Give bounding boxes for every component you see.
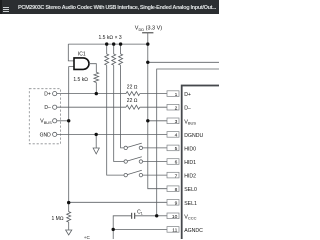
svg-text:IC1: IC1: [78, 51, 86, 57]
wire: C1 right plate to VCCC node: [135, 215, 157, 217]
node: VBUS / gate input junction: [67, 119, 70, 122]
svg-text:3: 3: [175, 119, 178, 125]
U1 pin 3 (VBUS): [167, 118, 179, 125]
resistor R6 22 Ohm (D- series): [126, 105, 140, 109]
node: rail / R3 junction: [119, 42, 122, 45]
svg-text:22 Ω: 22 Ω: [127, 85, 138, 91]
node: VDD branch to IC: [146, 61, 149, 64]
svg-text:VBUS: VBUS: [40, 119, 52, 125]
op-amp gate IC1: [74, 58, 89, 70]
wire: C1 left plate jog down to AGNDC net: [113, 216, 132, 230]
U1 pin 2 (D-): [167, 104, 179, 111]
U1 pin 5 (HID0): [167, 145, 179, 152]
wire: pull-up rail from gate input corner to VDD vertical: [68, 43, 148, 45]
node: SEL1 / 1 MOhm junction: [67, 201, 70, 204]
switch SW1 (HID0): [124, 143, 143, 150]
svg-text:HID1: HID1: [184, 160, 196, 166]
wire: rail down to IC1 upper input: [68, 44, 74, 61]
wire: right-edge wire turning down to VCCC node: [157, 69, 220, 216]
svg-text:D+: D+: [184, 92, 191, 98]
wire: stub down to capacitor C2 (cut off): [112, 229, 114, 239]
wire: VDD vertical from rail down to SEL0 pin 8: [148, 44, 167, 189]
J1 pin VBUS: [53, 119, 57, 123]
J1 pin D-: [53, 105, 57, 109]
wire: VBUS net from connector to gate-input vertical: [57, 120, 69, 122]
svg-text:9: 9: [175, 201, 178, 207]
wire: VDD branch to IC top right: [148, 61, 220, 63]
resistor R3 1.5 kOhm (pull-up to HID0 switch): [119, 44, 123, 65]
resistor R5 22 Ohm (D+ series): [126, 92, 140, 96]
U1 pin 6 (HID1): [167, 159, 179, 166]
svg-text:5: 5: [175, 146, 178, 152]
svg-text:6: 6: [175, 160, 178, 166]
resistor R7 1 MOhm (SEL1 pull-down): [67, 203, 71, 222]
svg-text:4: 4: [175, 133, 178, 139]
svg-text:1.5 kΩ: 1.5 kΩ: [73, 77, 88, 83]
wire: VCCC node to U1 pin 10: [157, 215, 167, 217]
svg-text:1: 1: [175, 92, 178, 98]
node: D+ / R4 junction: [95, 92, 98, 95]
svg-text:DGNDU: DGNDU: [184, 133, 203, 139]
svg-text:1.5 kΩ × 3: 1.5 kΩ × 3: [99, 35, 122, 41]
svg-text:D–: D–: [44, 105, 51, 111]
wire: AGNDC net to U1 pin 11: [113, 228, 167, 230]
wire: GND net from connector to U1 pin 4 DGNDU: [57, 133, 167, 135]
svg-text:D–: D–: [184, 106, 191, 112]
svg-text:1 MΩ: 1 MΩ: [52, 216, 64, 222]
svg-text:HID0: HID0: [184, 146, 196, 152]
svg-text:22 Ω: 22 Ω: [127, 98, 138, 104]
wire: D- net from connector to 22 Ohm resistor: [57, 106, 126, 108]
switch SW2 (HID1): [124, 157, 143, 163]
U1 pin 8 (SEL0): [167, 186, 179, 193]
resistor R2 1.5 kOhm (pull-up to HID1 switch): [112, 44, 116, 65]
svg-text:AGNDC: AGNDC: [184, 228, 203, 234]
node: VCCC / C1 junction: [155, 214, 158, 217]
node: AGNDC / C1 / C2 junction: [112, 228, 115, 231]
svg-text:VCCC: VCCC: [184, 214, 196, 220]
resistor R1 1.5 kOhm (pull-up to HID2 switch): [105, 44, 109, 65]
wire: R1 bottom to SW3: [107, 65, 124, 175]
svg-text:VBUS: VBUS: [184, 119, 196, 125]
wire: SW3 to U1 pin 7 HID2: [143, 174, 167, 176]
switch SW3 (HID2): [124, 170, 143, 177]
IC U1 PCM2903C body: [182, 86, 227, 240]
wire: SW1 to U1 pin 5 HID0: [143, 147, 167, 149]
svg-text:SEL0: SEL0: [184, 187, 197, 193]
wire: IC1 lower input down to VBUS/SEL1 vertical: [69, 67, 74, 203]
ground symbol (below 1 MOhm): [66, 222, 72, 235]
svg-text:D+: D+: [44, 92, 51, 98]
wire: R4 bottom to D+ node: [95, 83, 97, 94]
svg-text:SEL1: SEL1: [184, 201, 197, 207]
U1 pin 7 (HID2): [167, 172, 179, 179]
capacitor C1: [132, 213, 135, 219]
wire: R5 to U1 pin 1: [140, 93, 167, 95]
svg-text:10: 10: [172, 214, 178, 220]
node: rail / R2 junction: [112, 42, 115, 45]
wire: VBUS pin 3 feed from VDD vertical: [148, 120, 167, 122]
U1 pin 9 (SEL1): [167, 200, 179, 207]
node: GND / ground symbol junction: [95, 133, 98, 136]
power symbol VDD (3.3 V): [142, 33, 153, 44]
svg-text:+C: +C: [84, 235, 91, 239]
svg-text:11: 11: [172, 228, 177, 234]
resistor R4 1.5 kOhm (gate pull-up to D+): [94, 72, 99, 82]
svg-text:8: 8: [175, 187, 178, 193]
U1 pin 1 (D+): [167, 91, 179, 98]
wire: IC1 output to resistor R4: [89, 64, 96, 73]
J1 pin D+: [53, 92, 57, 96]
svg-text:2: 2: [175, 105, 178, 111]
svg-text:GND: GND: [40, 132, 52, 138]
USB connector J1 (dashed box): [29, 89, 60, 144]
svg-text:VDD (3.3 V): VDD (3.3 V): [135, 26, 162, 32]
U1 pin 11 (AGNDC): [167, 227, 179, 234]
node: VDD / VBUS pin 3 junction: [146, 119, 149, 122]
node: rail / R1 junction: [105, 42, 108, 45]
svg-text:C1: C1: [137, 209, 143, 215]
node: rail / VDD junction: [146, 42, 149, 45]
hamburger menu icon: [3, 7, 9, 12]
wire: R2 bottom to SW2: [114, 65, 124, 161]
svg-text:HID2: HID2: [184, 174, 196, 180]
page title: [18, 5, 216, 11]
wire: D+ net from connector to 22 Ohm resistor: [57, 93, 126, 95]
svg-text:7: 7: [175, 173, 178, 179]
wire: SW2 to U1 pin 6 HID1: [143, 161, 167, 163]
U1 pin 4 (DGNDU): [167, 132, 179, 139]
wire: R3 bottom to SW1: [121, 65, 124, 148]
J1 pin GND: [53, 132, 57, 136]
wire: SEL1 net from 1 MOhm node to U1 pin 9: [69, 201, 167, 203]
wire: R6 to U1 pin 2: [140, 106, 167, 108]
ground symbol (DGND near D+ pull-up): [93, 134, 99, 154]
U1 pin 10 (VCCC): [167, 213, 179, 220]
